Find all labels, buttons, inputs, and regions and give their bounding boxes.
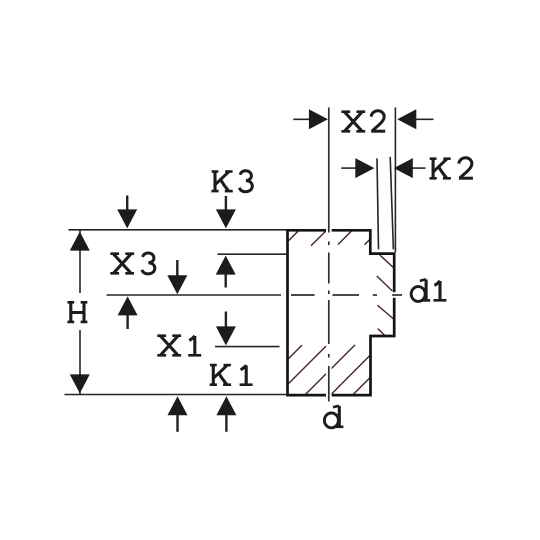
- K3 upper arrow: [216, 209, 236, 228]
- X3 upper arrow: [117, 209, 137, 228]
- arrow stems (thicker): [127, 196, 226, 432]
- label H: [67, 302, 87, 322]
- hatching (section lines) clipped to body: [287, 230, 395, 395]
- K2 left arrow: [355, 158, 374, 178]
- hatch bottom band line 2: [287, 346, 326, 385]
- hatch bottom band line 5: [353, 376, 372, 395]
- K1 upper arrow: [216, 326, 236, 345]
- hatch top band line e: [365, 239, 371, 245]
- hatch top band line b: [311, 231, 326, 246]
- hatch right column line 2: [377, 276, 393, 291]
- H dimension line lower part: [79, 330, 81, 394]
- K1 lower arrow: [216, 396, 236, 415]
- H upper arrow: [70, 232, 90, 251]
- K1 arrow stems: [225, 312, 227, 330]
- X3 arrow stems: [126, 196, 128, 213]
- bottom edge extension line: [65, 394, 287, 396]
- K2 dimension tails: [341, 167, 356, 169]
- label X3: [110, 253, 154, 274]
- label d: [324, 406, 343, 428]
- label K2: [430, 158, 473, 179]
- vertical centerline of pipe d (dash-dot): [328, 108, 330, 402]
- K3 arrow stems: [225, 196, 227, 212]
- H lower arrow: [70, 374, 90, 393]
- label d1: [411, 279, 446, 301]
- K2 right arrow: [394, 158, 413, 178]
- label X2: [341, 111, 385, 132]
- thin extension and dimension lines: [65, 108, 434, 395]
- label X1: [157, 336, 201, 356]
- X2 dimension tails: [293, 118, 310, 120]
- K2 left slanted extension line: [377, 158, 379, 249]
- X2 left arrow: [309, 109, 328, 129]
- hatch right column line 1: [380, 255, 395, 269]
- hatch top band line a: [287, 230, 300, 243]
- hatch right column line 3: [377, 305, 394, 320]
- hatch top band line c: [338, 230, 352, 244]
- d1 centerline reference line (left, solid): [107, 294, 282, 296]
- K3 lower arrow: [216, 256, 236, 275]
- X2 right extension line: [394, 108, 396, 253]
- K2 right slanted extension line: [390, 157, 393, 250]
- body outline of fitting cross-section: [288, 230, 395, 395]
- X1 upper arrow: [167, 275, 187, 294]
- hatch right column line 4: [378, 329, 386, 337]
- X1 arrow stems: [176, 260, 178, 277]
- centerline casings (white halos): [290, 107, 403, 403]
- X2 right arrow: [397, 109, 416, 129]
- top edge extension line: [69, 229, 287, 231]
- X3 lower arrow: [118, 296, 138, 315]
- label K1: [210, 365, 253, 385]
- hatch bottom band line 1: [287, 345, 302, 360]
- X1 lower arrow: [168, 396, 188, 415]
- hatch bottom band line 3: [305, 345, 355, 395]
- hatch bottom band line 4: [331, 354, 372, 395]
- H dimension line upper part: [79, 231, 81, 294]
- label K3: [211, 171, 252, 192]
- upper shoulder extension line: [218, 253, 287, 255]
- socket depth reference line K1/X1: [215, 346, 280, 348]
- horizontal centerline of branch d1 (dash-dot): [291, 294, 402, 296]
